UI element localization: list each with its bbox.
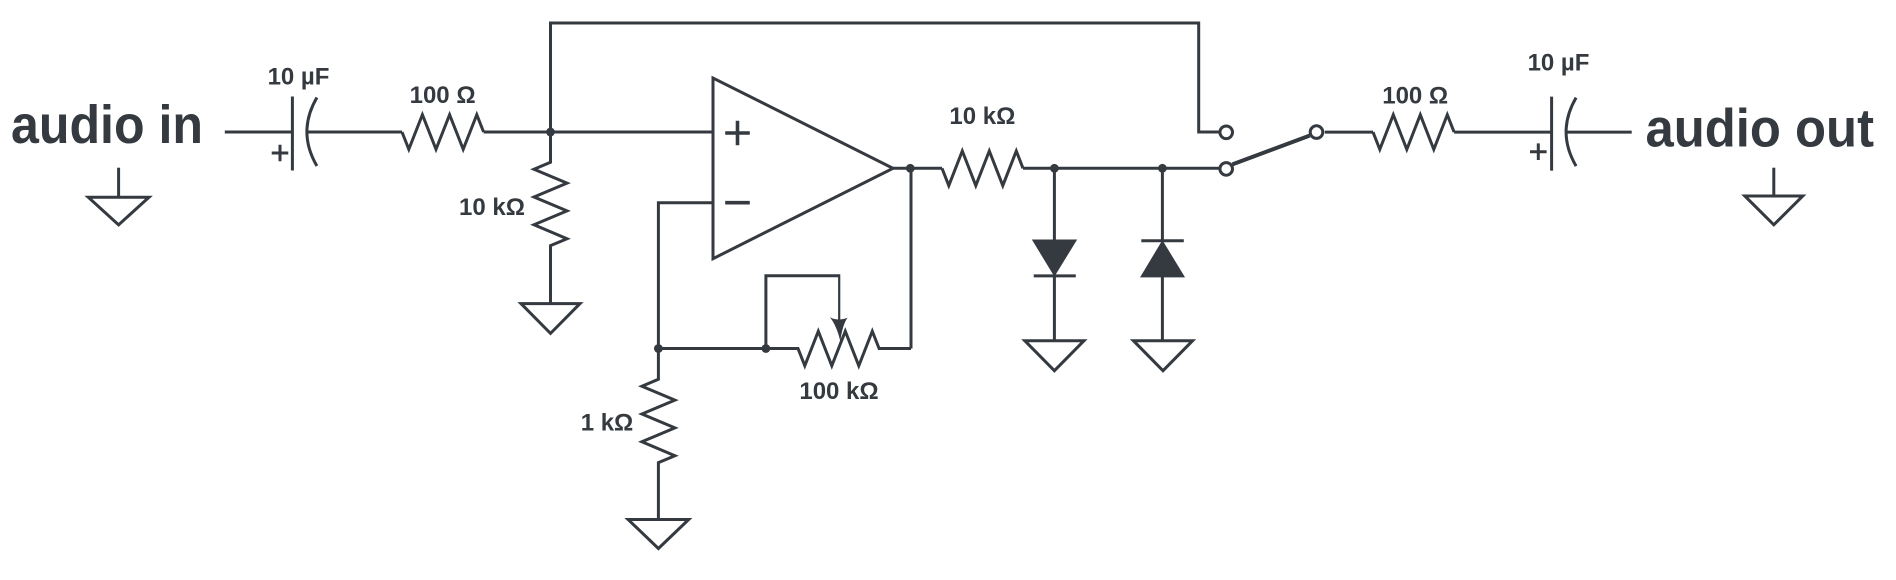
- svg-text:100 Ω: 100 Ω: [410, 82, 476, 109]
- ground GND1 under audio in: [88, 168, 149, 225]
- ground GND5 under D2: [1133, 341, 1192, 371]
- switch SW1: [1220, 126, 1323, 175]
- wire op-amp − input to node A: [658, 203, 713, 349]
- wire switch to R6: [1325, 131, 1373, 134]
- ground GND6 under audio out: [1745, 168, 1803, 225]
- wire pot to output node: [910, 168, 913, 348]
- svg-text:10 kΩ: 10 kΩ: [949, 103, 1015, 130]
- wire node A to node B: [658, 347, 766, 350]
- wire bypass top: [551, 23, 1220, 132]
- resistor R3 1 kΩ: [642, 349, 675, 520]
- capacitor C2 10 µF: [1530, 97, 1576, 171]
- wire R1 to op-amp + input: [484, 131, 713, 134]
- wire R6 to C2: [1454, 131, 1552, 134]
- svg-text:audio in: audio in: [11, 95, 203, 155]
- wire R4 to switch: [1023, 167, 1220, 170]
- svg-text:10 kΩ: 10 kΩ: [459, 194, 525, 221]
- node OUT: [906, 164, 915, 173]
- svg-text:10 µF: 10 µF: [268, 64, 330, 91]
- diode D1 (anode up, pointing down): [1034, 168, 1076, 340]
- capacitor C1 10 µF: [272, 97, 317, 171]
- svg-text:10 µF: 10 µF: [1528, 50, 1590, 77]
- wire C2 to audio out: [1567, 131, 1632, 134]
- wire audio in to C1: [225, 131, 293, 134]
- resistor R2 10 kΩ vertical: [534, 132, 567, 304]
- node D2: [1158, 164, 1167, 173]
- wire op-amp output: [893, 167, 942, 170]
- ground GND3 under R3: [628, 520, 689, 549]
- resistor R6 100 Ω: [1373, 115, 1454, 150]
- svg-text:100 Ω: 100 Ω: [1382, 83, 1448, 110]
- svg-text:100 kΩ: 100 kΩ: [799, 378, 878, 405]
- svg-text:1 kΩ: 1 kΩ: [581, 410, 634, 437]
- resistor R1 100 Ω: [402, 115, 484, 150]
- node B: [762, 344, 771, 353]
- ground GND4 under D1: [1025, 341, 1084, 371]
- op-amp U1: [713, 78, 893, 259]
- ground GND2 under R2: [521, 304, 580, 334]
- wire C1 to R1: [308, 131, 402, 134]
- svg-text:audio out: audio out: [1646, 99, 1875, 159]
- node A: [654, 344, 663, 353]
- potentiometer RV1 100 kΩ: [766, 274, 911, 366]
- node D1: [1050, 164, 1059, 173]
- node N1 input node: [546, 128, 555, 137]
- resistor R4 10 kΩ: [942, 151, 1023, 186]
- diode D2 (cathode up, pointing up): [1141, 168, 1184, 340]
